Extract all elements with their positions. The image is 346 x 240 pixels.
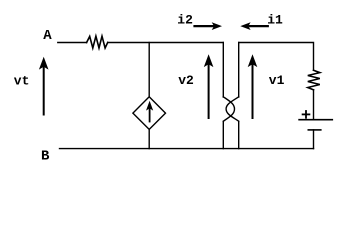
svg-text:A: A (43, 28, 52, 44)
battery short plate (308, 129, 321, 131)
svg-text:i2: i2 (177, 12, 193, 27)
bottom rail wire B (60, 148, 314, 150)
wire top-right from right port to resistor corner (239, 43, 314, 71)
arrow inside diamond (146, 101, 153, 122)
svg-text:v1: v1 (269, 73, 285, 88)
arrow vt (39, 57, 49, 115)
transformer left lower vertical (222, 122, 224, 149)
arrow v2 (204, 54, 214, 118)
wire battery to bottom rail (313, 130, 315, 149)
wire resistor to left port corner (108, 42, 224, 44)
transformer left port: top corner and vertical (222, 43, 224, 98)
battery plus sign (303, 111, 310, 118)
transformer crossing strand B (upper-right to lower-right via left bulge) (226, 97, 239, 121)
resistor R2 (vertical) (308, 70, 320, 90)
arrow i1 (points left) (240, 22, 267, 30)
transformer crossing strand A (upper-left to lower-left via right bulge) (223, 97, 234, 121)
wire top-left from A to resistor (58, 42, 87, 44)
resistor R1 (horizontal) (87, 36, 108, 48)
wire junction down to dependent source (148, 43, 150, 97)
transformer right port: top corner and vertical (238, 43, 240, 98)
battery long plate (299, 119, 332, 121)
arrow v1 (248, 54, 258, 118)
dependent current source (diamond) (133, 97, 166, 130)
arrow i2 (points right) (195, 22, 223, 30)
svg-text:vt: vt (14, 74, 30, 89)
transformer right lower vertical (238, 122, 240, 149)
svg-text:v2: v2 (178, 73, 194, 88)
svg-text:i1: i1 (267, 12, 283, 27)
wire diamond bottom to bottom rail (148, 129, 150, 148)
svg-text:B: B (41, 149, 50, 165)
wire resistor to battery (313, 90, 315, 120)
